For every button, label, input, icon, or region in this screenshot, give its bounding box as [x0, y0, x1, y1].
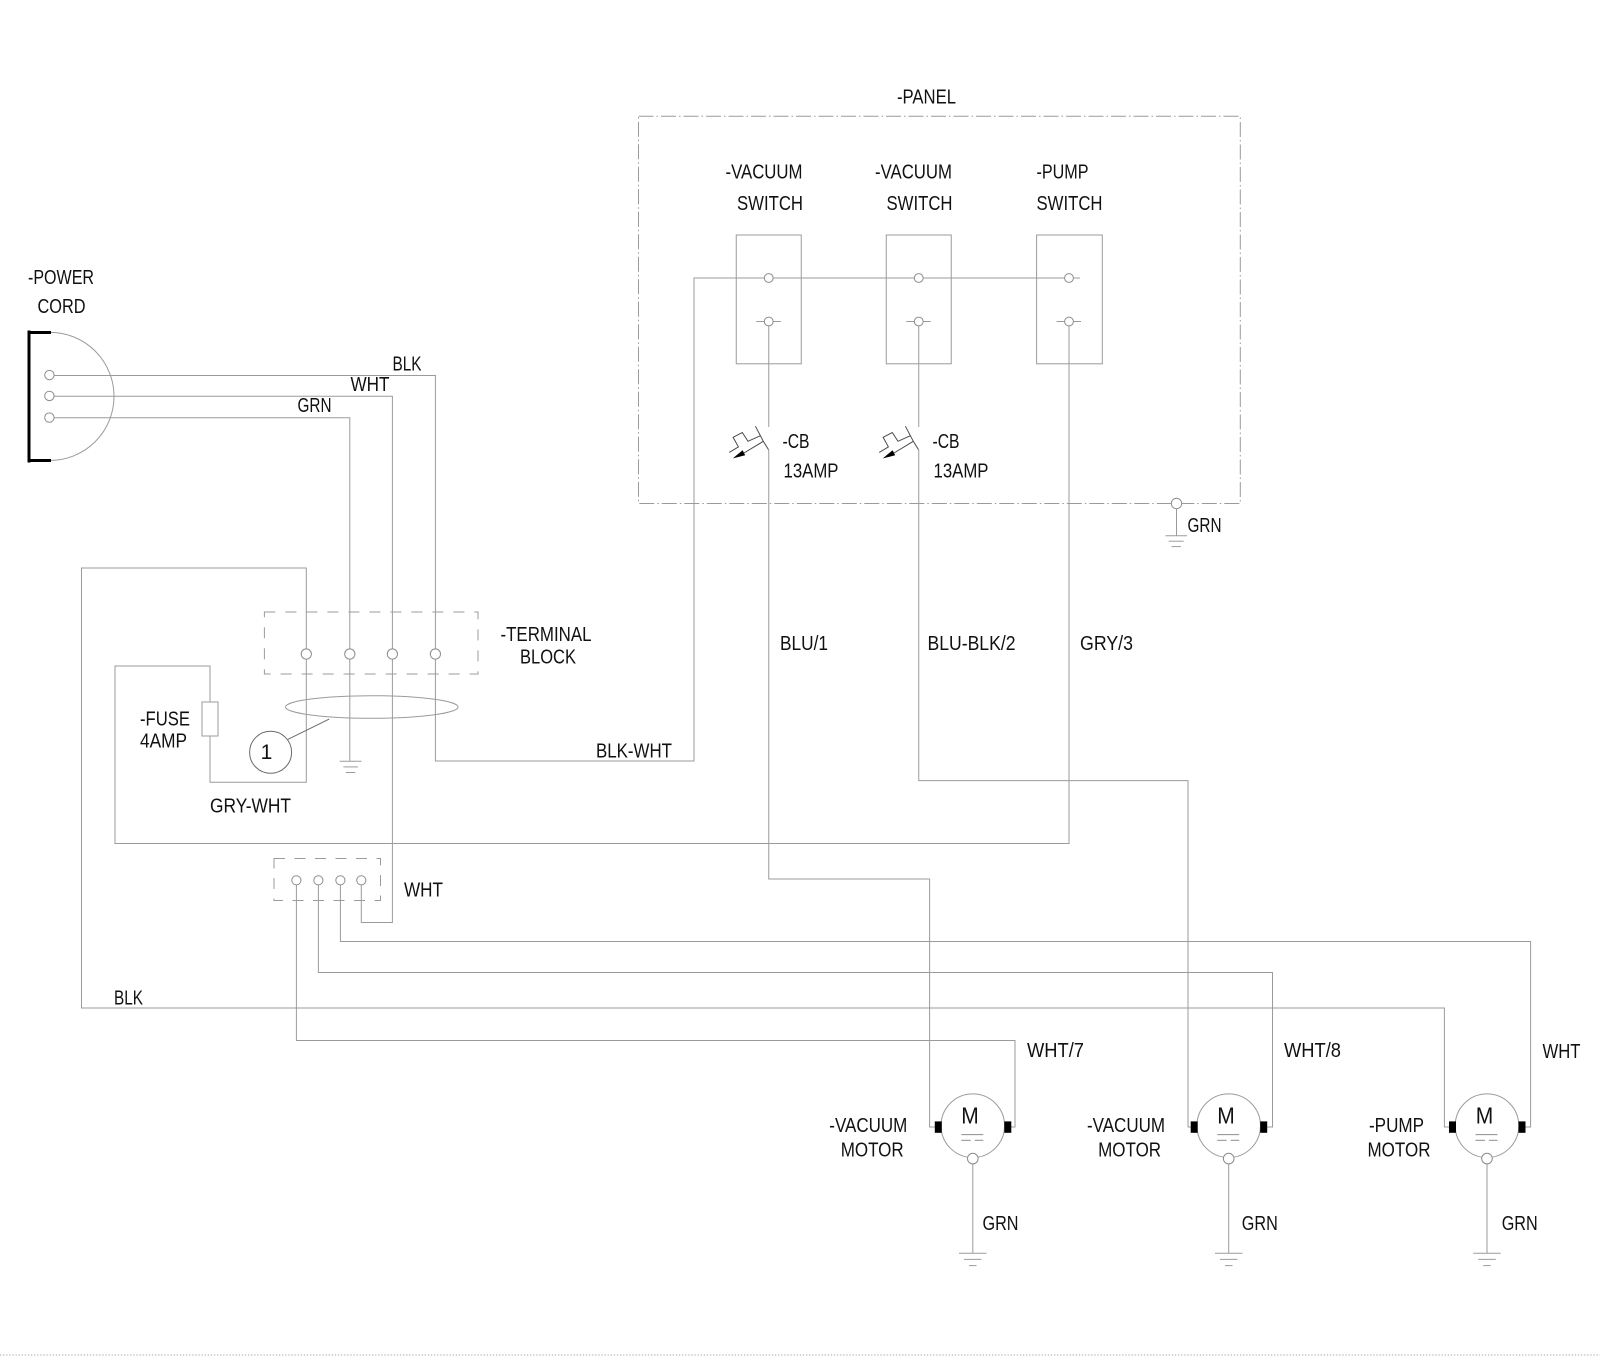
svg-text:M: M: [1476, 1103, 1494, 1129]
svg-text:M: M: [1217, 1103, 1235, 1129]
svg-text:BLU/1: BLU/1: [780, 633, 828, 655]
svg-text:WHT: WHT: [404, 880, 443, 902]
svg-text:13AMP: 13AMP: [784, 461, 839, 483]
svg-text:MOTOR: MOTOR: [1368, 1140, 1431, 1162]
svg-text:GRN: GRN: [1242, 1213, 1278, 1235]
svg-text:MOTOR: MOTOR: [841, 1140, 904, 1162]
svg-text:WHT: WHT: [351, 374, 390, 396]
svg-text:SWITCH: SWITCH: [887, 193, 953, 215]
svg-text:BLK-WHT: BLK-WHT: [596, 741, 672, 763]
svg-text:GRN: GRN: [983, 1213, 1019, 1235]
svg-text:GRN: GRN: [298, 395, 332, 417]
svg-text:GRY-WHT: GRY-WHT: [210, 796, 291, 818]
svg-text:4AMP: 4AMP: [140, 731, 187, 753]
svg-text:-VACUUM: -VACUUM: [875, 162, 952, 184]
svg-text:-CB: -CB: [933, 431, 960, 453]
svg-text:BLOCK: BLOCK: [520, 647, 577, 669]
svg-text:GRN: GRN: [1502, 1213, 1538, 1235]
svg-text:13AMP: 13AMP: [934, 461, 989, 483]
svg-text:-VACUUM: -VACUUM: [1087, 1115, 1165, 1137]
svg-text:M: M: [961, 1103, 979, 1129]
svg-text:-FUSE: -FUSE: [140, 709, 190, 731]
svg-text:WHT/7: WHT/7: [1027, 1040, 1084, 1062]
svg-text:BLU-BLK/2: BLU-BLK/2: [928, 633, 1016, 655]
svg-text:BLK: BLK: [393, 354, 422, 376]
svg-text:-POWER: -POWER: [28, 267, 94, 289]
svg-text:SWITCH: SWITCH: [1037, 193, 1103, 215]
svg-text:GRN: GRN: [1188, 515, 1222, 537]
svg-text:-VACUUM: -VACUUM: [726, 162, 803, 184]
svg-text:-TERMINAL: -TERMINAL: [501, 624, 592, 646]
svg-text:SWITCH: SWITCH: [737, 193, 803, 215]
svg-text:GRY/3: GRY/3: [1080, 633, 1133, 655]
svg-text:WHT/8: WHT/8: [1284, 1040, 1341, 1062]
svg-text:-CB: -CB: [783, 431, 810, 453]
svg-text:-VACUUM: -VACUUM: [829, 1115, 907, 1137]
svg-text:-PUMP: -PUMP: [1369, 1115, 1424, 1137]
svg-text:-PUMP: -PUMP: [1037, 162, 1089, 184]
svg-text:WHT: WHT: [1543, 1041, 1581, 1063]
svg-text:MOTOR: MOTOR: [1098, 1140, 1161, 1162]
svg-text:-PANEL: -PANEL: [897, 87, 956, 109]
svg-text:CORD: CORD: [38, 296, 86, 318]
svg-text:BLK: BLK: [114, 988, 143, 1010]
svg-text:1: 1: [261, 741, 273, 764]
